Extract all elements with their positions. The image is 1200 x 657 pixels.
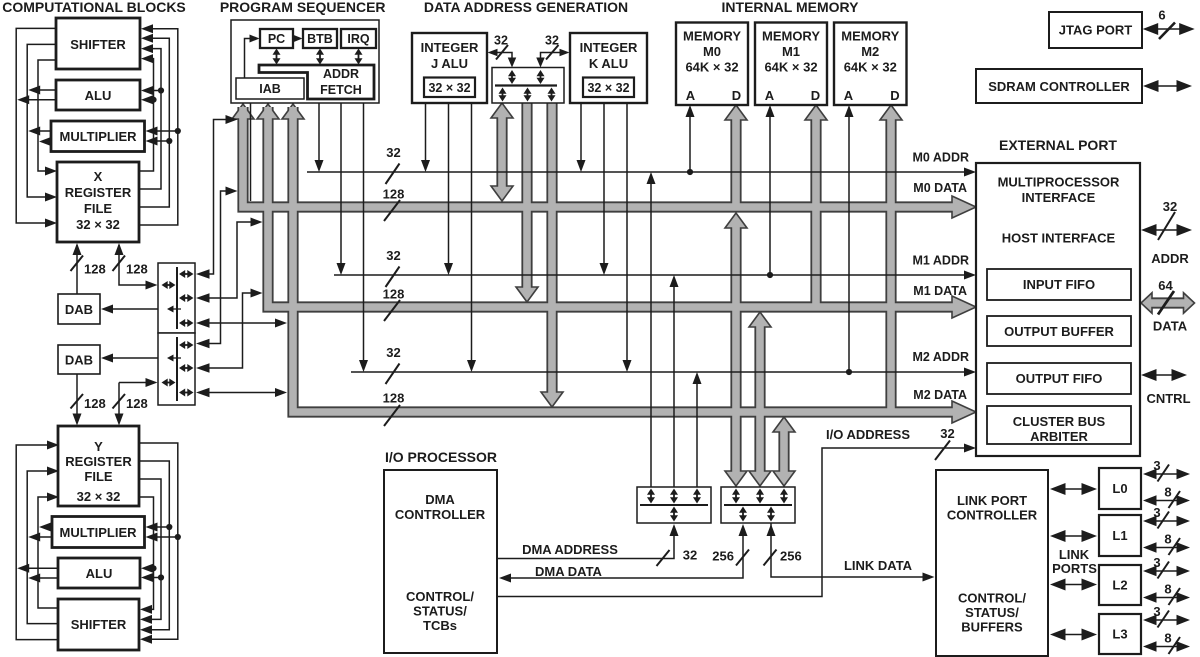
bus M0 D port vertical arrowhead [725, 105, 747, 120]
block X MULTIPLIER [51, 121, 145, 152]
svg-text:128: 128 [126, 262, 148, 277]
svg-text:INTEGER: INTEGER [421, 40, 479, 55]
wire DAB lower to Y regfile 128-bit [76, 374, 78, 423]
wire J ALU to M0 ADDR line [425, 103, 427, 165]
wire crossbar to IO bus lower [199, 392, 279, 394]
svg-text:A: A [844, 88, 854, 103]
wire crossbar internal arrows [183, 273, 190, 275]
block SDRAM CONTROLLER [976, 69, 1142, 103]
svg-text:3: 3 [1153, 555, 1160, 570]
svg-text:32: 32 [386, 248, 400, 263]
wire sequencer IAB to PM bus [250, 103, 252, 201]
block X REGISTER FILE [57, 162, 139, 242]
wire M1 ADDR line [334, 274, 964, 276]
wire Y MULTIPLIER out left 1 [31, 536, 52, 538]
wire IRQ to ADDR FETCH [358, 53, 360, 61]
wire crossbar divider upper [176, 267, 178, 329]
wire LPC to L0 [1064, 488, 1084, 490]
svg-text:M1 DATA: M1 DATA [913, 284, 967, 298]
wire sequencer to M2 ADDR line [363, 103, 365, 365]
bus DAG to M0 DATA bus vertical arrowhead [491, 103, 513, 118]
wire I/O ADDRESS [497, 448, 964, 597]
wire X right rail 1 [139, 59, 154, 171]
wire crossbar to PM bus lower [199, 191, 230, 344]
svg-text:32: 32 [386, 145, 400, 160]
svg-text:STATUS/: STATUS/ [965, 605, 1019, 620]
svg-text:6: 6 [1158, 8, 1165, 23]
svg-text:DAB: DAB [65, 353, 93, 368]
svg-text:DMA: DMA [425, 492, 455, 507]
block crossbar lower [158, 333, 195, 405]
svg-text:REGISTER: REGISTER [65, 454, 132, 469]
wire M1 A port [769, 108, 771, 275]
block INTEGER K ALU [570, 33, 647, 103]
svg-text:32: 32 [545, 34, 559, 48]
svg-text:BUFFERS: BUFFERS [961, 620, 1023, 635]
wire J ALU to M1 ADDR line [448, 103, 450, 268]
wire L1 3-bit connector [1155, 520, 1179, 522]
svg-text:DATA ADDRESS GENERATION: DATA ADDRESS GENERATION [424, 0, 628, 15]
node Y ALU right rail1 [150, 565, 156, 571]
svg-text:EXTERNAL PORT: EXTERNAL PORT [999, 137, 1117, 153]
svg-text:D: D [811, 88, 820, 103]
wire DAG to J ALU 32-bit [494, 53, 512, 64]
svg-text:OUTPUT FIFO: OUTPUT FIFO [1016, 371, 1103, 386]
wire J ALU to M2 ADDR line [471, 103, 473, 365]
svg-text:8: 8 [1164, 631, 1171, 646]
bus external 64-bit DATA double arrow (outline) [1150, 297, 1185, 308]
svg-text:FETCH: FETCH [320, 83, 362, 97]
block PROGRAM SEQUENCER outer [231, 20, 379, 103]
wire X left rail 3 [38, 60, 56, 171]
bus crossbar-B to M0 DATA bus vertical arrowhead [725, 213, 747, 228]
block MEMORY M0 [676, 23, 748, 106]
wire sequencer to M1 ADDR line [340, 103, 342, 268]
bus M1 D port vertical (outline) [810, 119, 821, 310]
bus M0 D port vertical (outline) [730, 119, 741, 210]
node X MULT right rail4 [175, 128, 181, 134]
svg-text:CONTROL/: CONTROL/ [958, 591, 1026, 606]
wire X MULTIPLIER out left 1 [31, 130, 51, 132]
svg-text:CNTRL: CNTRL [1146, 391, 1190, 406]
block IAB [236, 78, 304, 99]
svg-text:128: 128 [383, 391, 405, 406]
block IO address mux [637, 487, 711, 523]
bus PM data (program sequencer to M0 DATA horizontal bus) (fill) [243, 107, 955, 207]
svg-text:M0 DATA: M0 DATA [913, 181, 967, 195]
svg-text:DATA: DATA [1153, 319, 1188, 334]
bus DM data (program sequencer to M1 DATA horizontal bus) (outline) [268, 107, 955, 307]
svg-text:CONTROLLER: CONTROLLER [947, 508, 1038, 523]
svg-text:8: 8 [1164, 485, 1171, 500]
wire IO data mux arrows [735, 493, 737, 500]
svg-text:SDRAM CONTROLLER: SDRAM CONTROLLER [988, 79, 1130, 94]
bus crossbar-B to M1 DATA bus vertical (outline) [754, 326, 765, 472]
svg-text:64: 64 [1158, 278, 1173, 293]
bus M2 D port vertical (fill) [887, 119, 895, 415]
svg-text:DMA ADDRESS: DMA ADDRESS [522, 542, 618, 557]
wire Y MULTIPLIER out left 2 [42, 526, 52, 528]
block Y REGISTER FILE [58, 426, 139, 506]
wire LPC to L3 [1064, 634, 1084, 636]
bus crossbar-B to M0 DATA bus vertical (outline) [730, 227, 741, 472]
block Y MULTIPLIER [52, 517, 145, 548]
svg-text:IRQ: IRQ [347, 32, 370, 46]
svg-text:TCBs: TCBs [423, 618, 457, 633]
svg-text:M2: M2 [861, 44, 879, 59]
wire PC to BTB [293, 38, 296, 40]
svg-text:32 × 32: 32 × 32 [76, 217, 120, 232]
bus IO data (program sequencer to M2 DATA horizontal bus) (outline) [293, 107, 955, 412]
wire crossbar to DAB upper [104, 308, 158, 310]
wire X regfile 128-bit feed right [119, 245, 154, 285]
svg-text:INTERNAL MEMORY: INTERNAL MEMORY [722, 0, 860, 15]
wire L0 8-bit connector [1155, 500, 1179, 502]
wire Y ALU in right 2 [152, 577, 161, 579]
wire X MULTIPLIER in right 1 [156, 140, 169, 142]
bus crossbar-B to M1 DATA bus vertical arrowhead [749, 471, 771, 486]
bus IO data (program sequencer to M2 DATA horizontal bus) arrowhead [282, 104, 304, 119]
bus PM data (program sequencer to M0 DATA horizontal bus) (outline) [243, 107, 955, 207]
bus crossbar-B to M0 DATA bus vertical arrowhead [725, 471, 747, 486]
svg-text:256: 256 [712, 549, 734, 564]
svg-text:PC: PC [268, 32, 285, 46]
node X ALU right rail1 [150, 97, 156, 103]
wire JTAG 6-bit connector [1156, 28, 1181, 30]
svg-text:LINK PORT: LINK PORT [957, 493, 1027, 508]
bus IO data (program sequencer to M2 DATA horizontal bus) arrowhead [952, 401, 976, 423]
svg-text:MULTIPROCESSOR: MULTIPROCESSOR [998, 175, 1120, 190]
node Y MULT right rail4 [175, 534, 181, 540]
wire X regfile 128-bit feed left [76, 245, 78, 294]
svg-text:8: 8 [1164, 532, 1171, 547]
wire IO data mux divider [724, 504, 792, 506]
svg-text:MEMORY: MEMORY [762, 29, 820, 44]
svg-text:ARBITER: ARBITER [1030, 429, 1088, 444]
svg-text:SHIFTER: SHIFTER [71, 617, 127, 632]
svg-text:CONTROLLER: CONTROLLER [395, 507, 486, 522]
block MEMORY M1 [755, 23, 827, 106]
block JTAG PORT [1049, 12, 1142, 48]
wire X right rail 2 [139, 49, 161, 189]
svg-text:32 × 32: 32 × 32 [428, 81, 470, 95]
svg-text:M0 ADDR: M0 ADDR [913, 151, 969, 165]
bus IO data (program sequencer to M2 DATA horizontal bus) (fill) [293, 107, 955, 412]
svg-text:M2 DATA: M2 DATA [913, 388, 967, 402]
svg-text:SHIFTER: SHIFTER [70, 37, 126, 52]
wire X left rail 1 [16, 28, 56, 223]
wire K ALU to M0 ADDR line [580, 103, 582, 165]
wire L3 3-bit connector [1155, 619, 1179, 621]
wire crossbar to DM bus lower [199, 293, 255, 368]
svg-text:COMPUTATIONAL BLOCKS: COMPUTATIONAL BLOCKS [2, 0, 186, 15]
svg-text:FILE: FILE [84, 469, 112, 484]
node Y ALU right rail2 [158, 574, 164, 580]
wire crossbar to DAB lower [104, 357, 158, 359]
bus DM data (program sequencer to M1 DATA horizontal bus) (fill) [268, 107, 955, 307]
svg-text:3: 3 [1153, 505, 1160, 520]
svg-text:OUTPUT BUFFER: OUTPUT BUFFER [1004, 324, 1114, 339]
wire DMA ADDRESS [497, 528, 674, 559]
svg-text:Y: Y [94, 439, 103, 454]
block crossbar upper [158, 263, 195, 333]
bus crossbar-B to M2 DATA bus vertical (fill) [780, 431, 788, 472]
node M2 A junction [846, 369, 852, 375]
bus crossbar-B to M2 DATA bus vertical arrowhead [773, 471, 795, 486]
svg-text:I/O PROCESSOR: I/O PROCESSOR [385, 449, 497, 465]
block INTEGER J ALU [412, 33, 487, 103]
svg-text:M2 ADDR: M2 ADDR [913, 350, 969, 364]
wire crossbar to IO bus upper [199, 322, 279, 324]
svg-text:M0: M0 [703, 44, 721, 59]
svg-text:MULTIPLIER: MULTIPLIER [59, 525, 137, 540]
wire M0 A port [689, 108, 691, 172]
node X MULT right rail3 [166, 138, 172, 144]
svg-text:3: 3 [1153, 458, 1160, 473]
wire X MULTIPLIER out left 2 [42, 141, 51, 143]
svg-text:IAB: IAB [259, 82, 281, 96]
block PC [260, 29, 293, 48]
block Y SHIFTER [58, 599, 139, 650]
svg-text:BTB: BTB [307, 32, 333, 46]
svg-text:32 × 32: 32 × 32 [587, 81, 629, 95]
block K ALU 32x32 register [583, 78, 634, 98]
node M1 A junction [767, 272, 773, 278]
bus DAG to M2 DATA bus vertical arrowhead [541, 392, 563, 407]
block LINK PORT CONTROLLER [936, 470, 1048, 656]
svg-text:8: 8 [1164, 582, 1171, 597]
block OUTPUT FIFO [987, 363, 1131, 394]
block ADDR FETCH (stepped) [259, 65, 374, 99]
svg-text:X: X [94, 169, 103, 184]
block X ALU [56, 80, 140, 110]
block MEMORY M2 [834, 23, 907, 106]
svg-text:L2: L2 [1112, 578, 1127, 593]
svg-text:32 × 32: 32 × 32 [77, 489, 121, 504]
svg-text:PORTS: PORTS [1052, 561, 1097, 576]
wire IAB to PC [245, 39, 253, 79]
wire PC to ADDR FETCH [276, 53, 278, 61]
wire L1 8-bit connector [1155, 547, 1179, 549]
wire L2 3-bit connector [1155, 570, 1179, 572]
svg-text:64K × 32: 64K × 32 [844, 60, 897, 75]
wire X ALU out left 1 [31, 89, 56, 91]
wire Y right rail 3 [139, 461, 169, 630]
svg-text:M1 ADDR: M1 ADDR [913, 254, 969, 268]
bus external 64-bit DATA double arrow arrowhead [1184, 293, 1195, 314]
wire DAG interconnect divider [495, 84, 557, 86]
wire IO address mux arrows [650, 493, 652, 500]
svg-text:INTERFACE: INTERFACE [1022, 190, 1096, 205]
bus crossbar-B to M2 DATA bus vertical (outline) [778, 431, 789, 472]
wire M2 ADDR line [351, 371, 964, 373]
wire L3 8-bit connector [1155, 646, 1179, 648]
svg-text:128: 128 [383, 187, 405, 202]
svg-text:32: 32 [940, 426, 954, 441]
svg-text:JTAG PORT: JTAG PORT [1059, 23, 1132, 38]
svg-text:3: 3 [1153, 604, 1160, 619]
bus M1 D port vertical (fill) [812, 119, 820, 310]
block Y ALU [58, 558, 140, 588]
wire X right rail 4 [139, 29, 178, 225]
wire Y right rail 4 [139, 443, 178, 639]
bus crossbar-B to M1 DATA bus vertical (fill) [756, 326, 764, 472]
wire DMA DATA [508, 528, 743, 578]
svg-text:32: 32 [683, 548, 697, 563]
svg-text:DMA DATA: DMA DATA [535, 564, 603, 579]
svg-text:ADDR: ADDR [323, 67, 359, 81]
wire L0 3-bit connector [1155, 473, 1179, 475]
block CLUSTER BUS ARBITER [987, 406, 1131, 444]
block INPUT FIFO [987, 269, 1131, 300]
block EXTERNAL PORT outer [976, 163, 1140, 456]
wire X ALU out left 2 [20, 99, 56, 101]
svg-text:128: 128 [383, 287, 405, 302]
wire K ALU to M2 ADDR line [626, 103, 628, 365]
svg-text:L0: L0 [1112, 481, 1127, 496]
wire Y ALU out left 2 [20, 567, 58, 569]
svg-text:FILE: FILE [84, 201, 112, 216]
wire Y MULTIPLIER in right 2 [156, 536, 178, 538]
block DAB lower [58, 345, 100, 374]
block link port L2 [1099, 565, 1141, 605]
svg-text:MEMORY: MEMORY [683, 29, 741, 44]
wire boxA to M1 ADDR line [673, 281, 675, 487]
svg-text:M1: M1 [782, 44, 800, 59]
wire BTB to ADDR FETCH [319, 53, 321, 61]
bus crossbar-B to M2 DATA bus vertical arrowhead [773, 417, 795, 432]
bus M2 D port vertical (outline) [885, 119, 896, 415]
bus DAG to M1 DATA bus vertical arrowhead [516, 287, 538, 302]
wire Y right rail 2 [139, 479, 161, 619]
svg-text:HOST INTERFACE: HOST INTERFACE [1002, 231, 1116, 246]
wire crossbar to DM bus upper [199, 222, 255, 298]
svg-text:ALU: ALU [85, 88, 112, 103]
bus DAG to M0 DATA bus vertical (outline) [496, 117, 507, 189]
wire LPC to L1 [1064, 535, 1084, 537]
bus external 64-bit DATA double arrow (fill) [1150, 299, 1185, 307]
wire Y ALU in right 1 [152, 567, 154, 569]
wire LPC to L2 [1064, 584, 1084, 586]
wire X right rail 3 [139, 38, 169, 207]
svg-text:L1: L1 [1112, 528, 1127, 543]
wire DAG interconnect arrows [511, 74, 513, 80]
wire X ALU in right 2 [152, 90, 161, 92]
bus M1 D port vertical arrowhead [805, 105, 827, 120]
svg-text:32: 32 [1163, 199, 1177, 214]
svg-text:CLUSTER BUS: CLUSTER BUS [1013, 414, 1106, 429]
bus DAG to M2 DATA bus vertical (outline) [546, 103, 557, 399]
node X ALU right rail2 [158, 87, 164, 93]
svg-text:LINK DATA: LINK DATA [844, 558, 913, 573]
svg-text:64K × 32: 64K × 32 [764, 60, 817, 75]
wire SDRAM connector [1157, 85, 1179, 87]
svg-text:A: A [686, 88, 696, 103]
wire Y ALU out left 1 [31, 577, 58, 579]
wire L2 8-bit connector [1155, 597, 1179, 599]
wire external ADDR 32-bit connector [1155, 229, 1179, 231]
wire external CNTRL connector [1155, 374, 1174, 376]
bus crossbar-B to M0 DATA bus vertical (fill) [732, 227, 740, 472]
wire M2 A port [848, 108, 850, 372]
wire Y left rail 1 [16, 445, 58, 640]
svg-text:32: 32 [494, 34, 508, 48]
wire X left rail 2 [27, 44, 56, 197]
svg-text:STATUS/: STATUS/ [413, 604, 467, 619]
svg-text:INTEGER: INTEGER [580, 40, 638, 55]
svg-text:REGISTER: REGISTER [65, 185, 132, 200]
wire Y regfile 128-bit feed right [118, 383, 120, 424]
block DAB upper [58, 294, 100, 324]
wire Y right rail 1 [139, 497, 154, 609]
wire K ALU to M1 ADDR line [603, 103, 605, 268]
block link port L1 [1099, 515, 1141, 556]
wire X ALU in right 1 [152, 99, 154, 101]
svg-text:J ALU: J ALU [431, 56, 468, 71]
svg-text:256: 256 [780, 549, 802, 564]
svg-text:K ALU: K ALU [589, 56, 628, 71]
svg-text:ADDR: ADDR [1151, 251, 1189, 266]
node M0 A junction [687, 169, 693, 175]
wire sequencer to M0 ADDR line [318, 103, 320, 165]
bus DAG to M2 DATA bus vertical (fill) [548, 103, 556, 399]
svg-text:LINK: LINK [1059, 547, 1090, 562]
svg-text:32: 32 [386, 345, 400, 360]
node Y MULT right rail3 [166, 524, 172, 530]
wire Y left rail 3 [38, 497, 58, 608]
svg-text:PROGRAM SEQUENCER: PROGRAM SEQUENCER [220, 0, 386, 15]
block BTB [303, 29, 337, 48]
wire crossbar to PM bus upper [199, 120, 230, 275]
svg-text:L3: L3 [1112, 627, 1127, 642]
svg-text:MEMORY: MEMORY [841, 29, 899, 44]
bus DAG to M0 DATA bus vertical arrowhead [491, 186, 513, 201]
svg-text:I/O ADDRESS: I/O ADDRESS [826, 427, 910, 442]
wire boxA to M2 ADDR line [696, 378, 698, 487]
svg-text:A: A [765, 88, 775, 103]
block I/O PROCESSOR DMA CONTROLLER [384, 470, 497, 653]
block OUTPUT BUFFER [987, 316, 1131, 346]
block X SHIFTER [56, 18, 140, 69]
bus external 64-bit DATA double arrow arrowhead [1141, 293, 1152, 314]
svg-text:D: D [890, 88, 899, 103]
wire LINK DATA [771, 523, 925, 577]
bus DAG to M1 DATA bus vertical (fill) [523, 103, 531, 294]
svg-text:ALU: ALU [86, 566, 113, 581]
wire boxA to M0 ADDR line [650, 178, 652, 487]
block IRQ [341, 29, 376, 48]
wire DAG to K ALU 32-bit [541, 53, 563, 64]
svg-text:64K × 32: 64K × 32 [685, 60, 738, 75]
block DAG interconnect [492, 68, 564, 104]
wire crossbar divider lower [176, 337, 178, 401]
bus M0 D port vertical (fill) [732, 119, 740, 210]
block J ALU 32x32 register [424, 78, 475, 98]
wire M0 ADDR line [307, 171, 964, 173]
svg-text:128: 128 [84, 262, 106, 277]
wire X MULTIPLIER in right 2 [156, 130, 178, 132]
bus M2 D port vertical arrowhead [880, 105, 902, 120]
bus DAG to M1 DATA bus vertical (outline) [521, 103, 532, 294]
block IO data mux [721, 487, 795, 523]
wire IO address mux divider [640, 504, 708, 506]
bus crossbar-B to M1 DATA bus vertical arrowhead [749, 312, 771, 327]
svg-text:CONTROL/: CONTROL/ [406, 589, 474, 604]
bus PM data (program sequencer to M0 DATA horizontal bus) arrowhead [952, 196, 976, 218]
svg-text:128: 128 [84, 396, 106, 411]
svg-text:D: D [732, 88, 741, 103]
wire Y left rail 2 [27, 471, 58, 624]
